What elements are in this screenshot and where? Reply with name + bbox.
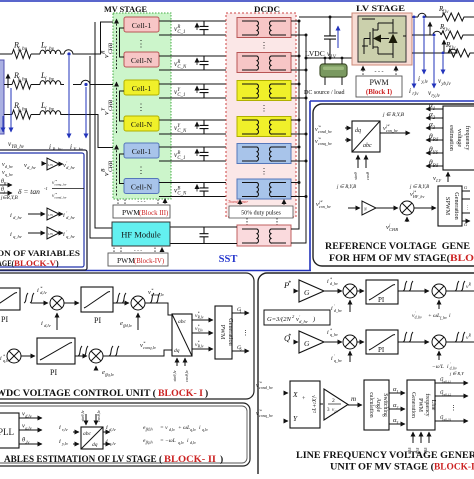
svg-text:dq: dq <box>174 348 180 354</box>
series link cells phase Y <box>120 91 125 121</box>
BLOCK-II title <box>4 454 223 465</box>
svg-text:i: i <box>409 87 411 95</box>
svg-text:-1: -1 <box>44 186 48 191</box>
svg-text:cond_hv: cond_hv <box>55 196 67 200</box>
svg-text:i: i <box>63 212 65 219</box>
svg-text:i: i <box>41 320 43 327</box>
gain G (Q) <box>299 331 342 353</box>
inductor Lf_hv phase R <box>31 41 64 55</box>
dc-link capacitor CR1 <box>197 21 209 35</box>
svg-text:estimation: estimation <box>448 125 455 151</box>
output alpha1 <box>389 386 405 394</box>
svg-text:1: 1 <box>396 389 398 394</box>
svg-text:abc: abc <box>83 431 92 437</box>
resistor Rf_hv phase R <box>0 41 31 59</box>
gain G (P) <box>299 280 342 302</box>
LV stage converter box <box>358 16 406 62</box>
break symbols P row <box>403 281 465 291</box>
svg-text:WDC VOLTAGE CONTROL UNIT (: WDC VOLTAGE CONTROL UNIT ( <box>0 388 156 399</box>
svg-text:*: * <box>288 333 291 339</box>
svg-text:Angle: Angle <box>375 398 381 413</box>
svg-text:DC source / load: DC source / load <box>304 90 345 96</box>
sin cos inputs BLOCK-II <box>80 410 102 425</box>
output G_cell,12 <box>435 389 468 397</box>
label i*_d_hv <box>327 277 338 286</box>
svg-text:cond_hv: cond_hv <box>318 129 332 134</box>
svg-text:UNIT OF MV STAGE (: UNIT OF MV STAGE ( <box>330 462 434 473</box>
svg-text:CHB: CHB <box>108 160 114 172</box>
summer (d feedforward) <box>113 296 145 310</box>
svg-text:Yδ: Yδ <box>433 150 439 156</box>
gate outputs G1..G6 <box>232 307 249 352</box>
dc-link capacitor CB2 <box>197 183 209 197</box>
cell Cell-1 phase Y <box>124 80 159 95</box>
svg-text:d_hv: d_hv <box>330 281 338 286</box>
label v_CHB^R <box>101 42 115 58</box>
HF transformer T2 <box>237 53 291 73</box>
wires T5 to LVDC bus <box>291 146 308 163</box>
dc-link capacitor CY2 <box>197 120 209 134</box>
svg-text:N: N <box>363 207 367 212</box>
resistor Rf_hv phase Y <box>4 71 31 89</box>
modulation index m <box>348 395 362 405</box>
PI controller (q current loop) <box>37 338 75 377</box>
svg-text:PWM: PWM <box>219 325 226 340</box>
svg-text:f_hv: f_hv <box>440 315 447 320</box>
PWM Block IV box <box>108 253 168 266</box>
svg-text:1/N: 1/N <box>48 163 53 167</box>
svg-text:cosθ: cosθ <box>365 171 370 180</box>
output alpha2 <box>389 402 405 410</box>
svg-text:Cell-N: Cell-N <box>131 183 153 192</box>
svg-text:f_hv: f_hv <box>45 75 55 82</box>
resistor Rf_lv row 1 <box>438 5 449 15</box>
magnitude box sqrt(X2+Y2) <box>290 381 320 428</box>
svg-text:PWM: PWM <box>122 208 140 217</box>
svg-text:C_N: C_N <box>177 192 187 197</box>
wire LV feeder row 1 <box>412 13 474 21</box>
svg-text:yb,lv: yb,lv <box>440 82 451 87</box>
PI controller (Q row) <box>357 330 398 354</box>
svg-text:LVDC: LVDC <box>305 49 325 58</box>
input v^j*p_con_hv <box>316 200 360 209</box>
HF transformer T5 <box>237 144 291 164</box>
feedforward equation 2 <box>143 438 196 446</box>
svg-text:HF_hv: HF_hv <box>412 194 425 199</box>
svg-text:BLO: BLO <box>450 254 474 264</box>
input v*p_cond_hv <box>256 381 288 394</box>
svg-text:G: G <box>304 339 310 348</box>
svg-text:i: i <box>106 424 108 431</box>
label v_d_hv in <box>24 162 36 170</box>
svg-text:abc: abc <box>178 319 187 325</box>
svg-text:⋮: ⋮ <box>137 165 146 175</box>
svg-text:y,lv: y,lv <box>420 80 428 85</box>
svg-text:Switching: Switching <box>382 393 388 417</box>
svg-text:i: i <box>10 231 12 238</box>
svg-text:LV: LV <box>329 55 336 60</box>
svg-text:Generation: Generation <box>453 192 460 220</box>
svg-text:ry,lv: ry,lv <box>431 94 440 99</box>
summer (P row) <box>343 284 357 298</box>
svg-text:f_hv: f_hv <box>45 105 55 112</box>
svg-text:X: X <box>292 390 298 399</box>
svg-text:m: m <box>351 395 356 403</box>
svg-text:(Block III): (Block III) <box>139 210 168 217</box>
svg-text:BLOCK-III: BLOCK-III <box>434 463 474 473</box>
svg-text:G: G <box>304 288 310 297</box>
abc-dq box BLOCK-I <box>172 314 192 356</box>
svg-text:q_hv: q_hv <box>334 358 342 363</box>
wires T1 to LVDC bus <box>291 20 308 37</box>
svg-text:BLOCK- I: BLOCK- I <box>158 389 203 399</box>
v_LV arrow <box>337 26 339 48</box>
PWM Block I box <box>356 66 402 97</box>
break symbol <box>116 293 126 303</box>
svg-text:Bδ: Bδ <box>433 163 439 169</box>
label vp*_conq_hv <box>315 137 351 146</box>
label v_ry,lv <box>428 89 441 99</box>
svg-text:d_hv: d_hv <box>13 215 22 220</box>
svg-text:1: 1 <box>433 106 436 112</box>
svg-text:PWM: PWM <box>369 78 388 87</box>
cropped label Q row edge <box>466 334 472 341</box>
modulation gain triangle <box>320 389 348 420</box>
feedforward e_ffq,lv <box>96 366 114 378</box>
series link cells phase B <box>120 154 125 184</box>
wire phase R to MV cells <box>64 22 113 54</box>
scaler 1/N for v_d <box>42 158 63 170</box>
feedforward e_ffd,lv <box>120 313 138 330</box>
svg-text:i: i <box>418 75 420 83</box>
svg-text:PI: PI <box>50 368 57 377</box>
SPWM output wire <box>414 207 436 209</box>
label i*_d,lv <box>31 285 48 303</box>
BLOCK-V title <box>0 249 81 268</box>
LVDC positive rail <box>299 16 358 19</box>
inputs i_r i_y <box>59 424 79 447</box>
label v_YB_hv <box>8 140 25 150</box>
svg-text:con_hv: con_hv <box>319 204 331 209</box>
output &#945;_3 <box>426 120 443 131</box>
label i_Y_hv <box>70 143 84 153</box>
input labels v_d_hv v_q_hv theta <box>0 162 18 201</box>
label v*_cond,lv <box>148 287 164 298</box>
return wire to HF module (2) <box>90 56 112 238</box>
svg-text:): ) <box>205 388 208 399</box>
wire out Q row <box>446 341 474 343</box>
label v^Y_C_1 <box>174 88 185 98</box>
HF transformer T6 <box>237 179 291 199</box>
svg-text:): ) <box>312 316 315 323</box>
svg-text:PI: PI <box>1 315 8 324</box>
T7 output wires to bus <box>291 21 306 243</box>
gain triangle N <box>362 201 398 215</box>
svg-text:Generation: Generation <box>410 392 416 418</box>
wire pair cell 3 to DCDC <box>159 84 237 98</box>
MOSFET switch <box>362 19 393 54</box>
svg-text:d_hv: d_hv <box>415 316 423 320</box>
cell Cell-N phase Y <box>124 116 159 131</box>
svg-text:f_hv: f_hv <box>45 45 55 52</box>
svg-text:i: i <box>63 231 65 238</box>
label vp_d_hv out <box>63 160 75 170</box>
line frequency PWM generation box <box>407 380 436 430</box>
label v^Y_C_N <box>174 124 187 134</box>
frequency voltage estimation box <box>443 106 474 170</box>
svg-text:PWM: PWM <box>417 398 423 412</box>
label vp*_cond_hv <box>315 125 351 134</box>
wire phase B to MV cells <box>64 115 113 148</box>
svg-text:G=3/(2N: G=3/(2N <box>267 316 292 323</box>
svg-text:ABLES ESTIMATION OF LV STAGE (: ABLES ESTIMATION OF LV STAGE ( <box>4 454 162 465</box>
voltage arrow v_ry <box>440 40 444 53</box>
label v_CHB^B <box>101 160 115 176</box>
SPWM gate outputs <box>462 185 470 227</box>
current probe arrow i_Y_hv <box>84 83 87 138</box>
svg-text:(Block-IV): (Block-IV) <box>134 258 164 265</box>
gate arrows PWM IV to HF module <box>114 248 162 255</box>
svg-text:conq_hv: conq_hv <box>318 141 332 146</box>
wire pair cell 2 to DCDC <box>159 56 237 70</box>
svg-text:−ω′L: −ω′L <box>432 364 444 370</box>
BLOCK-III title line 2 <box>330 462 474 473</box>
abc-dq box BLOCK-II <box>81 427 103 449</box>
cell Cell-1 phase R <box>124 17 159 32</box>
svg-text:SPWM: SPWM <box>444 197 451 216</box>
outputs i_d i_q <box>103 424 116 447</box>
wire LV feeder row 2 <box>412 31 474 39</box>
svg-text:⋮: ⋮ <box>242 329 249 337</box>
summer 2 (P row) <box>432 284 446 298</box>
svg-text:Cell-1: Cell-1 <box>132 21 152 30</box>
svg-text:d_hv: d_hv <box>299 319 308 324</box>
wires T6 to LVDC bus <box>291 181 308 198</box>
wire pair cell 5 to DCDC <box>159 147 237 161</box>
input v*p_conq_hv <box>256 409 288 422</box>
svg-text:dq: dq <box>355 128 361 134</box>
MV grid interface / purple source bar <box>0 60 8 134</box>
svg-text:abc: abc <box>363 143 372 149</box>
LV stage outer box <box>352 13 412 65</box>
feedback ip_q_hv <box>331 351 350 363</box>
output &#952;_B&#948; <box>426 158 443 169</box>
dc-link capacitor CY1 <box>197 84 209 98</box>
svg-text:): ) <box>56 259 59 268</box>
svg-text:voltage: voltage <box>456 129 463 147</box>
wire pair cell 6 to DCDC <box>159 183 237 197</box>
theta delta inputs <box>407 432 429 454</box>
wire to dq box (q) <box>103 346 172 356</box>
voltage arrow v_yb <box>426 22 430 35</box>
svg-text:d_hv: d_hv <box>66 215 75 220</box>
svg-text:i: i <box>106 438 108 445</box>
inductor Lf_hv phase B <box>31 101 64 115</box>
wire LV feeder row 3 <box>412 49 474 57</box>
svg-text:- - -: - - - <box>375 69 384 75</box>
svg-text:CHB: CHB <box>108 42 114 54</box>
svg-text:⋮: ⋮ <box>260 104 268 113</box>
wire v*_R,lv <box>192 312 213 321</box>
svg-text:= v: = v <box>160 425 168 431</box>
feedback i_d,lv <box>41 313 57 330</box>
svg-text:⋮: ⋮ <box>465 205 470 211</box>
svg-text:Generation: Generation <box>227 318 234 346</box>
wire PI to summer 2 (Q row) <box>398 341 429 343</box>
HFM panel title line 2 <box>329 253 474 264</box>
outer figure border (top edge) <box>0 0 474 2</box>
HFM reference panel blue border <box>310 101 474 270</box>
summer (Q row) <box>343 335 357 349</box>
MV stage cell container <box>113 13 171 199</box>
wires T3 to LVDC bus <box>291 83 308 100</box>
BLOCK-III panel <box>258 273 474 479</box>
svg-text:Cell-N: Cell-N <box>131 120 153 129</box>
svg-text:AGE(: AGE( <box>0 259 14 268</box>
svg-text:C_1: C_1 <box>177 30 185 35</box>
output &#952;_,lv <box>19 437 42 446</box>
svg-text:2: 2 <box>332 398 335 404</box>
svg-text:Cell-N: Cell-N <box>131 56 153 65</box>
svg-text:⋮: ⋮ <box>260 41 268 50</box>
svg-text:*: * <box>288 280 291 286</box>
HF transformer T1 <box>237 18 291 38</box>
svg-text:SST: SST <box>219 254 238 265</box>
svg-text:1/N: 1/N <box>48 232 53 236</box>
svg-text:sinθ: sinθ <box>353 171 358 179</box>
gate arrows PWM III to cells <box>118 199 165 206</box>
HF transformer T3 <box>237 81 291 101</box>
wire pair cell 4 to DCDC <box>159 120 237 134</box>
svg-text:+ ωL: + ωL <box>178 425 190 431</box>
PI controller (d current loop) <box>64 287 113 325</box>
PI controller (dc voltage loop) <box>0 288 20 324</box>
switching angle calculation box <box>364 380 389 430</box>
multiplier HF <box>400 201 414 215</box>
output v^j*p_con_hv <box>380 124 410 134</box>
svg-text:f_hv: f_hv <box>18 105 28 112</box>
svg-text:R: R <box>101 50 107 55</box>
svg-text:d_hv: d_hv <box>450 367 458 371</box>
svg-text:1: 1 <box>240 310 242 314</box>
HF-link transformer T7 <box>237 225 291 246</box>
feedback ip_d_hv <box>331 300 350 313</box>
svg-text:q_hv: q_hv <box>66 234 75 239</box>
svg-text:): ) <box>220 454 223 465</box>
svg-text:calculation: calculation <box>368 392 374 418</box>
HF Module box <box>112 222 170 246</box>
PWM Block III box <box>113 205 170 218</box>
feedforward term (P row) <box>412 300 451 320</box>
break symbol <box>24 293 34 303</box>
svg-text:BLOCK- II: BLOCK- II <box>164 455 216 465</box>
dq to abc transform box <box>352 121 380 152</box>
svg-text:j∈R,Y,B: j∈R,Y,B <box>0 195 18 201</box>
output &#952;_Y&#948; <box>426 145 443 156</box>
label ip_d_hv <box>63 210 75 220</box>
svg-text:C_1: C_1 <box>177 93 185 98</box>
HFM reference panel <box>313 104 474 266</box>
label v^j*_HF_hv <box>410 190 424 199</box>
50% duty pulses box <box>229 200 293 227</box>
feedforward term (Q row) <box>432 351 457 371</box>
DCDC dashed container <box>226 13 296 217</box>
feedforward equation 1 <box>143 425 208 433</box>
resistor Rf_hv phase B <box>4 101 31 119</box>
wires T2 to LVDC bus <box>291 55 308 72</box>
HF-link capacitor <box>200 227 209 244</box>
svg-text:f,lv: f,lv <box>449 46 456 51</box>
label v*_conq,lv <box>140 340 156 351</box>
svg-text:d_hv: d_hv <box>66 165 75 170</box>
LVDC capacitor <box>324 17 336 58</box>
BLOCK-I panel <box>0 273 254 399</box>
summer (d current) <box>50 296 64 310</box>
svg-text:CHB: CHB <box>108 99 114 111</box>
svg-text:i: i <box>59 424 61 431</box>
LVDC negative rail <box>305 57 359 60</box>
current/voltage probes LV <box>413 16 445 89</box>
HF transformer T4 <box>237 117 291 137</box>
svg-text:PI: PI <box>378 346 385 354</box>
PWM Generation box BLOCK-I <box>215 306 234 359</box>
svg-text:- - -: - - - <box>137 199 145 205</box>
label i_R_hv <box>49 143 63 153</box>
inductor Lf_hv phase Y <box>31 71 64 85</box>
sin cos inputs <box>353 155 370 180</box>
P* input <box>283 280 298 291</box>
svg-text:dq: dq <box>92 442 98 448</box>
resistor Rf_lv row 2 <box>439 23 450 33</box>
output v_q,lv <box>19 423 42 432</box>
output &#945;_1 <box>426 101 443 112</box>
BLOCK-I title <box>0 388 208 399</box>
svg-text:C_N: C_N <box>177 65 187 70</box>
gain formula box <box>264 310 330 325</box>
svg-text:BLOCK-V: BLOCK-V <box>14 259 56 268</box>
wires T4 to LVDC bus <box>291 119 308 136</box>
svg-text:Line: Line <box>430 400 436 411</box>
cell Cell-1 phase B <box>124 143 159 158</box>
label i*_q_hv <box>327 328 338 337</box>
svg-text:Rδ: Rδ <box>432 137 439 143</box>
dc-link capacitor CR2 <box>197 56 209 70</box>
svg-text:δ = tan: δ = tan <box>18 187 40 196</box>
svg-text:PI: PI <box>378 296 385 304</box>
body diode <box>389 19 407 58</box>
svg-text:f,lv: f,lv <box>442 10 449 15</box>
svg-text:d_hv: d_hv <box>27 165 36 170</box>
label v_yb,lv <box>438 77 451 87</box>
return wire to HF module (1) <box>95 22 112 228</box>
svg-text:REFERENCE VOLTAGE GENE: REFERENCE VOLTAGE GENE <box>325 242 470 252</box>
BLOCK-II panel border <box>0 403 250 466</box>
delta equation <box>18 179 84 200</box>
svg-text:LINE FREQUENCY VOLTAGE GENER: LINE FREQUENCY VOLTAGE GENER <box>296 451 474 461</box>
current probe arrow i_R_hv <box>67 52 70 138</box>
svg-text:PI: PI <box>94 316 101 325</box>
svg-text:Cell-1: Cell-1 <box>132 84 152 93</box>
svg-text:conq_hv: conq_hv <box>259 413 273 418</box>
BLOCK-V panel border <box>0 150 87 270</box>
svg-text:q_hv: q_hv <box>330 332 338 337</box>
label LVDC v_LV <box>305 49 337 60</box>
svg-text:cond_hv: cond_hv <box>259 385 273 390</box>
svg-text:f_hv: f_hv <box>18 75 28 82</box>
output &#952;_R&#948; <box>426 132 443 143</box>
svg-text:f,lv: f,lv <box>443 28 450 33</box>
label v^R_C_N <box>174 60 187 70</box>
